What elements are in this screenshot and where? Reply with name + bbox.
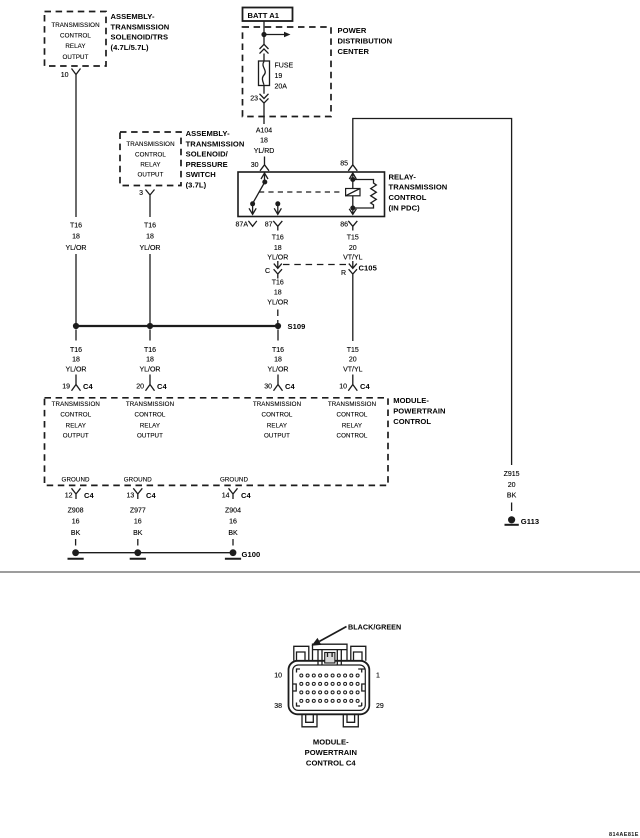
svg-text:85: 85 <box>340 160 348 167</box>
svg-text:CONTROL: CONTROL <box>393 417 431 426</box>
wire: C105-C down to splice <box>277 261 279 263</box>
node: splice dot col2 <box>147 323 153 329</box>
svg-text:A104: A104 <box>256 127 272 134</box>
svg-text:OUTPUT: OUTPUT <box>62 54 88 61</box>
G100 bus wire <box>76 552 233 554</box>
svg-text:10: 10 <box>339 383 347 390</box>
connector pin field corner marks <box>293 669 366 706</box>
svg-text:CONTROL: CONTROL <box>135 151 166 158</box>
relay switch: pin 30 arm <box>261 173 268 185</box>
label: TRANSMISSION CONTROL RELAY OUTPUT (pin19) <box>52 401 100 440</box>
connector bottom-left tab <box>302 714 317 727</box>
svg-text:19: 19 <box>275 73 283 80</box>
pin 12 C4 of PCM (connector fork) <box>65 488 95 500</box>
connector C105 cavity C (male arrow + female fork) <box>265 261 282 279</box>
svg-text:CONTROL: CONTROL <box>337 412 368 419</box>
svg-text:PRESSURE: PRESSURE <box>186 160 228 169</box>
svg-text:POWER: POWER <box>338 26 367 35</box>
svg-text:RELAY: RELAY <box>267 422 287 429</box>
svg-text:C105: C105 <box>359 264 378 273</box>
svg-text:(IN PDC): (IN PDC) <box>389 204 421 213</box>
svg-text:C4: C4 <box>146 491 156 500</box>
svg-text:C4: C4 <box>157 382 167 391</box>
svg-text:POWERTRAIN: POWERTRAIN <box>305 748 357 757</box>
svg-text:23: 23 <box>250 96 258 103</box>
svg-text:18: 18 <box>274 245 282 252</box>
node: splice dot col3 <box>275 323 281 329</box>
svg-text:38: 38 <box>274 703 282 710</box>
svg-text:POWERTRAIN: POWERTRAIN <box>393 406 445 415</box>
svg-text:YL/OR: YL/OR <box>267 300 288 307</box>
svg-text:GROUND: GROUND <box>62 476 91 483</box>
wire: stub into S109 <box>277 310 279 324</box>
svg-text:OUTPUT: OUTPUT <box>137 433 163 440</box>
svg-text:18: 18 <box>146 233 154 240</box>
relay switch blade 30-87A <box>253 182 265 204</box>
svg-text:16: 16 <box>72 519 80 526</box>
svg-text:BK: BK <box>228 530 238 537</box>
relay coil pin 85 arm <box>349 173 356 182</box>
svg-text:YL/RD: YL/RD <box>254 148 275 155</box>
pin 23 of PDC (double chevron down) <box>250 94 268 103</box>
relay K1 transmission control: box <box>238 172 385 217</box>
svg-text:30: 30 <box>264 383 272 390</box>
svg-text:30: 30 <box>251 162 259 169</box>
label BLACK/GREEN with pointer arrow <box>312 623 402 646</box>
wire stub to G100 col2 <box>137 539 139 546</box>
svg-text:T16: T16 <box>144 347 156 354</box>
pin 20 C4 of PCM (connector fork) <box>136 375 167 392</box>
svg-text:GROUND: GROUND <box>124 476 153 483</box>
pin 10 C4 of PCM (connector fork) <box>339 375 370 392</box>
fuse 19 20A <box>259 61 294 91</box>
connector top-right mounting tab <box>351 646 366 661</box>
svg-text:FUSE: FUSE <box>275 62 294 69</box>
svg-text:20: 20 <box>136 383 144 390</box>
wire stub below splice col3 <box>277 330 279 341</box>
svg-text:20A: 20A <box>275 84 288 91</box>
pin 19 C4 of PCM (connector fork) <box>62 375 93 392</box>
label: TRANSMISSION CONTROL RELAY OUTPUT (pin20) <box>126 401 174 440</box>
svg-text:10: 10 <box>61 72 69 79</box>
wire label T15 20 VT/YL (below pin 86) <box>343 234 363 261</box>
svg-text:T15: T15 <box>347 234 359 241</box>
pin 30 of relay (connector fork) <box>251 159 269 171</box>
label: POWER DISTRIBUTION CENTER <box>338 26 393 56</box>
svg-text:BLACK/GREEN: BLACK/GREEN <box>348 623 401 632</box>
relay coil pin 86 contact <box>349 206 356 215</box>
wire label Z904 16 BK <box>225 508 241 537</box>
wire: junction to fuse <box>263 36 265 61</box>
pin 30 C4 of PCM (connector fork) <box>264 375 295 392</box>
box: power distribution center (dashed) <box>243 27 332 117</box>
separator rule <box>0 571 640 573</box>
svg-text:13: 13 <box>127 492 135 499</box>
svg-text:SOLENOID/TRS: SOLENOID/TRS <box>111 33 169 42</box>
svg-text:BATT A1: BATT A1 <box>248 11 280 20</box>
wire: T16 col2 lower segment to splice <box>149 254 151 326</box>
svg-text:TRANSMISSION: TRANSMISSION <box>51 22 99 29</box>
svg-text:87A: 87A <box>236 222 249 229</box>
ground G113 <box>505 516 519 525</box>
node: junction dot with feed arrow <box>261 32 290 38</box>
svg-text:C4: C4 <box>83 382 93 391</box>
svg-text:814AE81E: 814AE81E <box>609 832 639 838</box>
svg-text:CONTROL: CONTROL <box>337 433 368 440</box>
pin 86 of relay (connector fork) <box>340 221 357 231</box>
svg-text:Z904: Z904 <box>225 508 241 515</box>
wire label Z915 20 BK <box>504 471 520 499</box>
svg-text:T16: T16 <box>272 280 284 287</box>
svg-text:DISTRIBUTION: DISTRIBUTION <box>338 36 393 45</box>
resistor across coil <box>353 180 377 209</box>
svg-text:18: 18 <box>260 138 268 145</box>
svg-text:YL/OR: YL/OR <box>139 245 160 252</box>
svg-text:18: 18 <box>274 357 282 364</box>
svg-text:YL/OR: YL/OR <box>267 254 288 261</box>
svg-text:Z915: Z915 <box>504 471 520 478</box>
svg-text:(4.7L/5.7L): (4.7L/5.7L) <box>111 43 150 52</box>
connector pin circles (4 rows x 10) <box>300 674 359 702</box>
svg-text:C4: C4 <box>360 382 370 391</box>
wire: T16 col2 upper segment <box>149 200 151 217</box>
svg-text:GROUND: GROUND <box>220 476 249 483</box>
svg-text:87: 87 <box>265 222 273 229</box>
svg-text:RELAY: RELAY <box>140 422 160 429</box>
connector body: module-powertrain control C4 <box>289 661 370 715</box>
svg-text:CONTROL: CONTROL <box>60 33 91 40</box>
svg-text:CONTROL: CONTROL <box>60 412 91 419</box>
svg-text:TRANSMISSION: TRANSMISSION <box>253 401 301 408</box>
svg-text:R: R <box>341 270 346 277</box>
pin 87A of relay (chevron, no wire) <box>236 221 257 229</box>
svg-text:TRANSMISSION: TRANSMISSION <box>389 183 448 192</box>
svg-text:OUTPUT: OUTPUT <box>63 433 89 440</box>
wire: pin 85 up and over to G113 drop <box>353 119 512 466</box>
wire stub to G100 col3 <box>232 539 234 546</box>
label: RELAY-TRANSMISSION CONTROL (IN PDC) <box>389 172 448 212</box>
svg-text:20: 20 <box>508 482 516 489</box>
svg-text:CONTROL C4: CONTROL C4 <box>306 759 356 768</box>
wire stub below splice col2 <box>149 330 151 341</box>
wire label Z908 16 BK <box>68 508 84 537</box>
svg-text:RELAY: RELAY <box>342 422 362 429</box>
svg-text:TRANSMISSION: TRANSMISSION <box>111 22 170 31</box>
svg-text:86: 86 <box>340 222 348 229</box>
connector latch assembly <box>313 644 348 665</box>
svg-text:T15: T15 <box>347 347 359 354</box>
svg-text:(3.7L): (3.7L) <box>186 181 207 190</box>
svg-text:G113: G113 <box>521 517 539 526</box>
wire label T16 18 YL/OR (below C105) <box>267 280 288 307</box>
svg-text:YL/OR: YL/OR <box>65 366 86 373</box>
fuse holder terminal (double chevron up) <box>260 44 269 53</box>
svg-text:C: C <box>265 268 270 275</box>
relay contact 87A <box>249 201 256 214</box>
label: TRANSMISSION CONTROL RELAY CONTROL (pin10) <box>328 401 376 440</box>
svg-text:18: 18 <box>72 357 80 364</box>
wire label A104 18 YL/RD <box>254 127 275 155</box>
svg-text:1: 1 <box>376 672 380 679</box>
svg-text:12: 12 <box>65 492 73 499</box>
svg-text:16: 16 <box>229 519 237 526</box>
svg-text:T16: T16 <box>272 234 284 241</box>
svg-text:BK: BK <box>507 492 517 499</box>
pin 87 of relay (connector fork) <box>265 221 283 231</box>
label: ASSEMBLY-TRANSMISSION SOLENOID/TRS (4.7L/5.7L) <box>111 12 170 52</box>
svg-text:CONTROL: CONTROL <box>135 412 166 419</box>
wire label Z977 16 BK <box>130 508 146 537</box>
svg-text:RELAY: RELAY <box>140 161 160 168</box>
pin 13 C4 of PCM (connector fork) <box>127 488 157 500</box>
label: ASSEMBLY-TRANSMISSION SOLENOID/PRESSURE SWITCH (3.7L) <box>186 129 245 190</box>
label: TRANSMISSION CONTROL RELAY OUTPUT (pin30) <box>253 401 301 440</box>
svg-text:C4: C4 <box>241 491 251 500</box>
ground G100 dot col2 <box>130 549 146 558</box>
label: MODULE-POWERTRAIN CONTROL C4 <box>305 738 357 768</box>
svg-text:10: 10 <box>274 672 282 679</box>
svg-text:OUTPUT: OUTPUT <box>137 172 163 179</box>
svg-text:C4: C4 <box>285 382 295 391</box>
svg-text:S109: S109 <box>288 322 306 331</box>
svg-text:BK: BK <box>71 530 81 537</box>
pin 10 of TRS solenoid (connector fork) <box>61 69 81 80</box>
svg-text:YL/OR: YL/OR <box>139 366 160 373</box>
svg-text:T16: T16 <box>272 347 284 354</box>
svg-text:T16: T16 <box>70 223 82 230</box>
svg-text:3: 3 <box>139 190 143 197</box>
svg-text:BK: BK <box>133 530 143 537</box>
wire label T16 18 YL/OR (col2) <box>139 223 160 252</box>
label: MODULE-POWERTRAIN CONTROL <box>393 396 445 426</box>
svg-text:CONTROL: CONTROL <box>389 193 427 202</box>
relay contact 87 <box>274 201 281 214</box>
svg-text:T16: T16 <box>70 347 82 354</box>
ground G100 dot col3 <box>225 549 241 558</box>
node: splice dot col1 <box>73 323 79 329</box>
svg-text:SWITCH: SWITCH <box>186 170 216 179</box>
connector bottom-right tab <box>343 714 358 727</box>
wire label T16 18 YL/OR (col1) <box>65 223 86 252</box>
svg-text:20: 20 <box>349 245 357 252</box>
relay actuation dashed link <box>259 191 344 193</box>
relay coil element <box>346 180 360 209</box>
svg-text:YL/OR: YL/OR <box>65 245 86 252</box>
box: assembly-transmission solenoid/TRS (4.7L/5.7L) <box>45 12 107 67</box>
wire: T16 col1 lower segment to splice <box>75 254 77 326</box>
svg-text:G100: G100 <box>242 550 261 559</box>
svg-text:SOLENOID/: SOLENOID/ <box>186 150 229 159</box>
svg-text:CENTER: CENTER <box>338 47 370 56</box>
svg-text:18: 18 <box>146 357 154 364</box>
wire label T15 20 VT/YL (col4 to module) <box>343 347 363 374</box>
wire: C105-R down to module pin 10 <box>352 279 354 342</box>
connector C105 cavity R (male arrow + female fork) <box>341 261 357 279</box>
box: assembly-transmission solenoid/pressure switch (3.7L) <box>120 132 181 186</box>
svg-text:TRANSMISSION: TRANSMISSION <box>52 401 100 408</box>
svg-text:14: 14 <box>222 492 230 499</box>
wire: batt feed into PDC <box>263 21 265 35</box>
pin 85 of relay (connector fork) <box>340 159 357 171</box>
ground G100 dot col1 <box>68 549 84 558</box>
wire: A104 to relay pin 30 <box>264 157 266 160</box>
dashed connector line C to R <box>283 264 349 266</box>
wire stub to G113 <box>511 503 513 512</box>
svg-text:RELAY: RELAY <box>66 422 86 429</box>
connector top-left mounting tab <box>294 646 309 661</box>
svg-text:Z908: Z908 <box>68 508 84 515</box>
svg-text:TRANSMISSION: TRANSMISSION <box>186 139 245 148</box>
svg-text:RELAY-: RELAY- <box>389 172 417 181</box>
svg-text:19: 19 <box>62 383 70 390</box>
svg-text:OUTPUT: OUTPUT <box>264 433 290 440</box>
svg-text:TRANSMISSION: TRANSMISSION <box>328 401 376 408</box>
wire: fuse output exits PDC <box>263 86 265 125</box>
splice S109 bus <box>76 325 278 327</box>
pin 3 of pressure switch (connector fork) <box>139 190 154 201</box>
svg-text:20: 20 <box>349 357 357 364</box>
node BATT A1 <box>243 8 293 22</box>
wire label T16 18 YL/OR (col3 to module) <box>267 347 288 374</box>
wire: T16 col1 upper segment <box>75 80 77 218</box>
wire stub below splice col1 <box>75 330 77 341</box>
svg-text:29: 29 <box>376 703 384 710</box>
wire label T16 18 YL/OR (below pin 87) <box>267 234 288 261</box>
pin 14 C4 of PCM (connector fork) <box>222 488 252 500</box>
svg-text:ASSEMBLY-: ASSEMBLY- <box>186 129 230 138</box>
svg-text:C4: C4 <box>84 491 94 500</box>
svg-text:16: 16 <box>134 519 142 526</box>
svg-text:YL/OR: YL/OR <box>267 366 288 373</box>
wire label T16 18 YL/OR (col2 to module) <box>139 347 160 374</box>
svg-text:VT/YL: VT/YL <box>343 254 363 261</box>
svg-text:MODULE-: MODULE- <box>393 396 429 405</box>
svg-text:18: 18 <box>72 233 80 240</box>
svg-text:MODULE-: MODULE- <box>313 738 349 747</box>
svg-text:VT/YL: VT/YL <box>343 366 363 373</box>
svg-text:T16: T16 <box>144 223 156 230</box>
svg-text:TRANSMISSION: TRANSMISSION <box>126 141 174 148</box>
svg-text:TRANSMISSION: TRANSMISSION <box>126 401 174 408</box>
svg-text:Z977: Z977 <box>130 508 146 515</box>
svg-text:CONTROL: CONTROL <box>262 412 293 419</box>
svg-text:RELAY: RELAY <box>65 43 85 50</box>
wire label T16 18 YL/OR (col1 to module) <box>65 347 86 374</box>
svg-text:ASSEMBLY-: ASSEMBLY- <box>111 12 155 21</box>
svg-text:18: 18 <box>274 289 282 296</box>
module U1 powertrain control: box (dashed) <box>45 398 389 486</box>
wire stub to G100 col1 <box>75 539 77 546</box>
